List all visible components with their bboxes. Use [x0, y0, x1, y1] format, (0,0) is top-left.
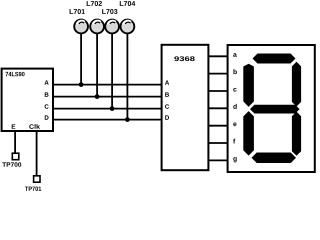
wire g (U2 to DS1) — [208, 159, 228, 161]
pin label f (DS1) — [233, 139, 235, 144]
label 74LS90 — [6, 72, 25, 76]
junction LED4 — [125, 117, 130, 122]
wire d (U2 to DS1) — [208, 107, 228, 109]
label L702 — [87, 1, 102, 6]
pin label D (U2) — [165, 115, 169, 119]
label 9368 — [174, 56, 194, 61]
wire A (U1 to U2) — [53, 84, 162, 86]
pin label E (U1) — [12, 124, 16, 128]
wire C (U1 to U2) — [53, 108, 162, 110]
wire B (U1 to U2) — [53, 96, 162, 98]
junction LED2 — [95, 94, 100, 99]
wire D (U1 to U2) — [53, 119, 162, 121]
junction LED1 — [79, 82, 84, 87]
label TP701 — [25, 187, 41, 191]
wire e (U2 to DS1) — [208, 125, 228, 127]
segment d (DS1 digit) — [252, 153, 297, 164]
label L703 — [102, 9, 117, 14]
segment a (DS1 digit) — [253, 54, 296, 64]
pin label e (DS1) — [233, 123, 236, 127]
wire LED2 drop — [96, 33, 98, 97]
wire a (U2 to DS1) — [208, 55, 228, 57]
LED L703 — [105, 20, 119, 34]
segment e (DS1 digit) — [243, 111, 254, 156]
LED L702 — [90, 20, 104, 34]
pin label d (DS1) — [233, 104, 236, 109]
IC U1 74LS90 counter body — [2, 69, 53, 131]
pin label B (U1) — [45, 92, 49, 96]
segment c (DS1 digit) — [292, 112, 301, 156]
LED L701 — [74, 20, 88, 34]
pin label c (DS1) — [233, 88, 236, 92]
IC U2 decoder 9368 body — [162, 45, 209, 170]
pin label C (U1) — [45, 104, 49, 108]
display DS1 body — [228, 45, 315, 172]
pin label a (DS1) — [233, 53, 237, 57]
pin label g (DS1) — [233, 157, 236, 162]
pin label b (DS1) — [233, 69, 236, 74]
wire c (U2 to DS1) — [208, 90, 228, 92]
label L704 — [120, 1, 135, 6]
wire Clk to TP701 — [36, 131, 38, 176]
test point TP700 pad — [12, 153, 18, 160]
pin label Clk (U1) — [29, 124, 40, 129]
junction LED3 — [110, 106, 115, 111]
wire E to TP700 — [14, 131, 16, 153]
LED L704 — [121, 20, 135, 34]
label L701 — [70, 9, 85, 14]
wire LED4 drop — [126, 33, 128, 120]
label TP700 — [2, 162, 21, 166]
segment b (DS1 digit) — [292, 62, 301, 107]
segment f (DS1 digit) — [243, 64, 254, 107]
pin label B (U2) — [165, 92, 169, 96]
pin label A (U1) — [44, 80, 48, 84]
wire LED3 drop — [111, 33, 113, 109]
wire LED1 drop — [80, 33, 82, 85]
segment g (DS1 digit) — [250, 105, 300, 114]
pin label A (U2) — [165, 80, 169, 84]
pin label C (U2) — [165, 104, 169, 108]
test point TP701 pad — [34, 176, 40, 182]
wire f (U2 to DS1) — [208, 142, 228, 144]
pin label D (U1) — [45, 115, 49, 119]
wire b (U2 to DS1) — [208, 73, 228, 75]
